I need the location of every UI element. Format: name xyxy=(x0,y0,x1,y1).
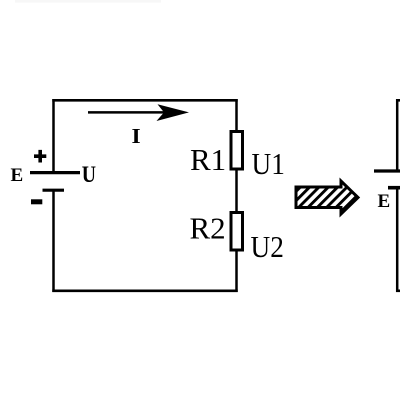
current arrow I shaft xyxy=(88,111,168,114)
svg-text:U1: U1 xyxy=(252,147,285,181)
label minus xyxy=(31,199,42,204)
wire left lower (circuit 2) xyxy=(396,188,399,292)
wire right upper (circuit 1) xyxy=(235,99,238,131)
svg-text:U2: U2 xyxy=(251,230,284,264)
resistor R2 box xyxy=(231,213,243,251)
wire top (circuit 1) xyxy=(52,99,237,102)
battery E positive plate circuit 2 (long, cut off) xyxy=(374,169,400,172)
wire top stub (circuit 2) xyxy=(396,99,400,102)
svg-text:R1: R1 xyxy=(190,142,226,177)
faint top border line xyxy=(15,0,161,3)
svg-text:R2: R2 xyxy=(190,211,226,246)
wire left lower (circuit 1) xyxy=(52,190,55,292)
svg-text:I: I xyxy=(132,124,141,148)
svg-text:E: E xyxy=(378,191,391,212)
svg-text:U: U xyxy=(82,161,97,187)
current arrow I head xyxy=(157,104,190,121)
hatched block arrow (implication) xyxy=(296,181,358,214)
wire right lower (circuit 1) xyxy=(235,251,238,292)
wire bottom (circuit 1) xyxy=(52,289,237,292)
battery E positive plate (long) xyxy=(30,171,80,174)
wire left upper (circuit 1) xyxy=(52,99,55,173)
battery E negative plate circuit 2 (short, cut off) xyxy=(388,186,400,190)
resistor R1 box xyxy=(231,132,243,170)
wire left upper (circuit 2) xyxy=(396,99,399,171)
battery E negative plate (short) xyxy=(43,189,65,192)
label + xyxy=(34,150,46,163)
wire right middle (circuit 1) xyxy=(235,170,238,212)
wire bottom stub (circuit 2) xyxy=(396,289,400,292)
svg-text:E: E xyxy=(11,165,24,186)
